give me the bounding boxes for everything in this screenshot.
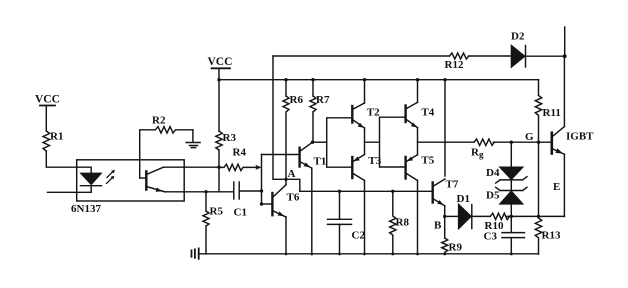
diode D2	[511, 31, 565, 68]
wire positive rail	[219, 79, 539, 81]
wire R9 to ground rail	[444, 253, 446, 255]
node T1 collector	[311, 141, 314, 144]
node D2 output junction	[563, 54, 567, 58]
svg-text:D5: D5	[486, 190, 500, 202]
phototransistor (inside 6N137)	[140, 167, 165, 192]
wire input cathode line	[48, 186, 92, 193]
resistor R11	[535, 95, 561, 119]
wire top line	[273, 55, 511, 57]
node VCC (input side)	[35, 94, 60, 106]
wire R2 to phototransistor base	[139, 131, 141, 178]
wire rail corner to R11	[538, 80, 540, 96]
wire T6 emitter to ground rail	[285, 217, 287, 254]
igbt U1	[552, 127, 594, 155]
svg-text:R7: R7	[316, 94, 330, 106]
svg-text:R13: R13	[542, 230, 561, 242]
svg-text:T5: T5	[421, 155, 434, 167]
wire T1 emitter to ground rail	[311, 168, 313, 254]
transistor T5	[406, 155, 435, 181]
zener D5	[486, 187, 527, 204]
wire tie1 column T2/T3 bases	[327, 118, 352, 167]
wire IGBT collector	[563, 56, 565, 126]
wire B to R9	[444, 216, 446, 238]
arrow R4 output	[255, 165, 261, 170]
node R8 tap	[391, 190, 394, 193]
svg-text:A: A	[288, 168, 296, 180]
wire D5 to C3	[510, 204, 512, 233]
node C2 tap	[338, 190, 341, 193]
wire IGBT emitter	[563, 154, 565, 216]
wire top branch column	[273, 56, 286, 179]
svg-text:E: E	[553, 181, 560, 193]
capacitor C2	[328, 191, 366, 254]
node VCC (driver side)	[208, 56, 233, 68]
svg-text:T4: T4	[421, 107, 434, 119]
node E/zener column crossing	[510, 215, 513, 218]
LED (inside 6N137)	[81, 173, 102, 185]
wire T7 collector column	[444, 80, 446, 176]
node C1/R4 column	[260, 189, 263, 192]
wire R2 to ground	[192, 130, 194, 143]
svg-text:G: G	[525, 131, 534, 143]
wire ground rail	[199, 253, 539, 255]
svg-text:D4: D4	[486, 167, 500, 179]
svg-text:R4: R4	[233, 147, 247, 159]
wire G to D4	[510, 142, 512, 167]
wire VCC to R1	[45, 106, 47, 132]
svg-text:R6: R6	[290, 94, 304, 106]
node R13 column G-line junction	[537, 141, 540, 144]
svg-text:R1: R1	[50, 131, 63, 143]
svg-text:Rg: Rg	[471, 147, 484, 160]
wire D1 to R10	[472, 215, 491, 217]
wire T1 collector to tie1	[313, 141, 327, 143]
LED light arrows	[107, 170, 115, 184]
svg-text:C3: C3	[484, 230, 498, 242]
node R4 tap	[217, 166, 220, 169]
wire C1 right lead	[239, 190, 261, 192]
wire R11 to G line	[538, 116, 540, 142]
svg-text:D1: D1	[457, 193, 470, 205]
wire timing line	[300, 190, 433, 192]
svg-text:T7: T7	[446, 179, 459, 191]
wire T6 base lead	[262, 203, 272, 205]
wire rail to R7	[312, 80, 314, 96]
wire T7 emitter to node B	[444, 206, 446, 217]
wire E line	[507, 215, 564, 217]
svg-text:R9: R9	[449, 242, 463, 254]
wire opto collector out	[163, 166, 219, 168]
svg-text:VCC: VCC	[208, 56, 233, 68]
resistor R5	[203, 206, 223, 227]
node T4 collector rail junction	[416, 78, 419, 81]
transistor T6	[272, 185, 299, 217]
wire R7 to T1 collector node	[312, 112, 314, 142]
resistor R10	[485, 213, 510, 232]
ground (main)	[192, 248, 199, 258]
node B	[443, 215, 446, 218]
resistor R2	[140, 115, 193, 134]
wire R1 to LED anode	[46, 151, 91, 173]
transistor T2	[352, 103, 380, 128]
svg-text:R2: R2	[152, 115, 166, 127]
zener D4	[486, 167, 527, 183]
node R13 top	[537, 215, 540, 218]
svg-text:T1: T1	[314, 156, 327, 168]
wire T1 base line	[262, 154, 300, 156]
node R5 junction	[204, 190, 207, 193]
resistor R13	[535, 142, 561, 254]
capacitor C1	[234, 182, 247, 219]
resistor R4	[219, 147, 257, 171]
optocoupler 6N137 box	[77, 160, 185, 201]
resistor R3	[216, 131, 237, 150]
wire gate line	[418, 141, 552, 143]
svg-text:D2: D2	[511, 31, 525, 43]
resistor R9	[442, 238, 463, 254]
svg-text:R12: R12	[445, 59, 464, 71]
node T2 collector rail junction	[363, 78, 366, 81]
svg-text:IGBT: IGBT	[566, 131, 594, 143]
wire rail to R6	[285, 80, 287, 96]
node VCC2 rail junction	[217, 78, 220, 81]
resistor R1	[43, 131, 63, 152]
capacitor C3	[484, 230, 525, 254]
node T6 base	[260, 202, 263, 205]
svg-text:R3: R3	[223, 132, 237, 144]
wire T2 collector to rail	[364, 80, 366, 103]
node G	[510, 141, 513, 144]
wire T2/T3 emitter junction	[364, 128, 366, 155]
svg-text:VCC: VCC	[35, 94, 60, 106]
wire tie2 column T4/T5 bases	[380, 117, 405, 167]
svg-text:C2: C2	[352, 230, 366, 242]
wire node A column (R6 bottom to T6 collector)	[285, 113, 287, 185]
resistor R7	[310, 94, 330, 112]
ground (R2)	[186, 143, 200, 148]
transistor T7	[433, 179, 459, 206]
node R6 rail junction	[284, 78, 287, 81]
svg-text:R8: R8	[396, 217, 410, 229]
wire R5 to ground rail	[205, 226, 207, 254]
svg-text:C1: C1	[234, 207, 247, 219]
resistor R12	[445, 53, 469, 71]
wire A bend to timing line	[286, 179, 300, 191]
wire T3 collector to ground rail	[364, 181, 366, 255]
svg-text:B: B	[434, 220, 442, 232]
node R7 rail junction	[311, 78, 314, 81]
wire opto emitter out	[165, 191, 219, 193]
wire emitter node to R5	[205, 192, 207, 211]
transistor T3	[352, 155, 381, 181]
node T7 column rail junction	[443, 78, 446, 81]
wire pair1 output stub	[365, 141, 380, 143]
svg-text:T6: T6	[287, 192, 300, 204]
svg-text:T2: T2	[367, 107, 380, 119]
transistor T4	[406, 102, 435, 127]
resistor Rg	[471, 139, 494, 160]
wire R3 to C1 corner	[219, 150, 234, 192]
wire D4 to D5	[510, 180, 512, 191]
svg-text:6N137: 6N137	[71, 203, 101, 215]
wire collector terminal stub	[564, 27, 566, 56]
wire T5 collector to ground rail	[417, 181, 419, 255]
svg-text:R11: R11	[543, 107, 561, 119]
node A junction	[284, 178, 287, 181]
svg-text:R5: R5	[210, 206, 224, 218]
resistor R6	[283, 94, 303, 112]
wire VCC2 down	[218, 68, 220, 131]
resistor R8	[390, 191, 410, 254]
wire B node line	[445, 215, 458, 217]
diode D1	[457, 193, 472, 229]
wire T4/T5 emitter junction	[417, 128, 419, 155]
wire R4/C1 node column	[261, 155, 263, 205]
transistor T1	[300, 142, 327, 168]
node rail junctions	[285, 253, 513, 256]
wire T4 collector to rail	[417, 80, 419, 103]
